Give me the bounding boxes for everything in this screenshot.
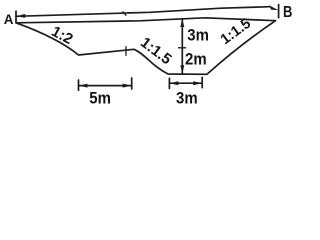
svg-text:B: B <box>283 4 292 21</box>
svg-text:3m: 3m <box>187 26 209 44</box>
svg-text:3m: 3m <box>176 89 198 105</box>
svg-text:1:1.5: 1:1.5 <box>218 16 254 48</box>
svg-text:A: A <box>4 12 14 27</box>
svg-text:1:2: 1:2 <box>48 23 75 48</box>
svg-text:2m: 2m <box>185 50 207 68</box>
svg-text:1:1.5: 1:1.5 <box>137 34 175 68</box>
svg-text:5m: 5m <box>89 90 111 105</box>
